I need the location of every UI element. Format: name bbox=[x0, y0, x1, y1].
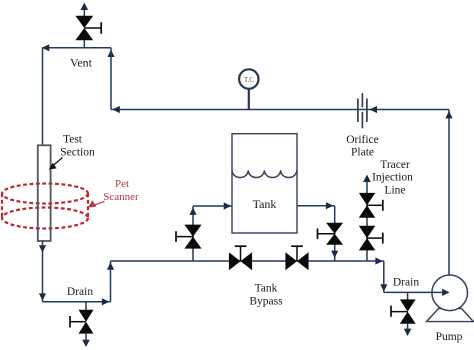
arrow right into tank bbox=[224, 202, 232, 209]
wire: tank inlet horizontal bbox=[193, 205, 232, 207]
wire: vent header bbox=[43, 47, 112, 49]
wire: main top line bbox=[111, 109, 449, 111]
pet scanner cylinder (red dashed) bbox=[2, 184, 88, 229]
svg-text:T.C: T.C bbox=[244, 77, 254, 84]
arrow down drain-left outlet bbox=[82, 340, 90, 347]
svg-text:Vent: Vent bbox=[70, 56, 93, 70]
valve V2 drain-left stem bbox=[85, 302, 87, 310]
arrow down drain-right outlet bbox=[404, 329, 412, 336]
svg-text:Tracer: Tracer bbox=[380, 159, 410, 171]
valve V3a bypass 1 (bowtie horizontal) bbox=[229, 246, 252, 270]
wire: test section to drain corner bbox=[42, 241, 44, 302]
arrow up on riser below bypass line bbox=[107, 262, 114, 269]
arrow down above drain corner bbox=[39, 293, 46, 300]
wire: left downcomer from vent header to test section bbox=[42, 48, 44, 146]
instrument T-C circle bbox=[239, 69, 258, 88]
wire: drain-left valve outlet bbox=[85, 334, 87, 341]
orifice plate bbox=[358, 93, 367, 128]
wire: vent valve outlet stub bbox=[83, 9, 85, 16]
svg-text:Drain: Drain bbox=[67, 286, 93, 298]
arrow up tracer line bbox=[363, 175, 371, 183]
svg-text:Line: Line bbox=[384, 185, 405, 197]
svg-text:Tank: Tank bbox=[255, 283, 278, 295]
wire: bypass line bbox=[111, 260, 384, 262]
valve V6 drain-right (bowtie) bbox=[391, 299, 416, 323]
tank rectangle bbox=[232, 134, 297, 233]
valve V6 drain-right stem bbox=[407, 292, 409, 299]
black annotation arrow to test section bbox=[49, 158, 63, 170]
wire: riser from main line to vent header bbox=[110, 48, 112, 110]
arrow down below test section bbox=[39, 245, 46, 252]
wire: vent valve inlet stub bbox=[83, 40, 85, 48]
svg-text:Tank: Tank bbox=[253, 197, 277, 211]
wire: riser drain-left to bypass line bbox=[110, 261, 112, 302]
arrow up on tank inlet riser bbox=[189, 208, 196, 215]
wire: tank inlet riser bbox=[192, 206, 194, 261]
valve V2 drain-left (bowtie) bbox=[70, 310, 94, 334]
arrow left on main line near left corner bbox=[112, 106, 120, 113]
wire: drain-right valve outlet bbox=[407, 324, 409, 330]
wire: right riser from pump to main line bbox=[448, 110, 450, 276]
test section rectangle bbox=[38, 145, 51, 241]
valve V4 tank inlet (bowtie) bbox=[176, 225, 202, 249]
valve V7 tracer upper (bowtie) bbox=[359, 193, 383, 218]
arrow down on outlet riser above bypass bbox=[331, 251, 338, 258]
arrow right at bypass line east end bbox=[375, 257, 383, 264]
pump circle bbox=[432, 275, 468, 311]
svg-text:Pump: Pump bbox=[436, 331, 463, 343]
red annotation arrow to scanner bbox=[88, 200, 105, 207]
svg-text:Pet: Pet bbox=[115, 178, 129, 190]
wire: drain line inside pump + arrow at pump center bbox=[432, 291, 442, 293]
arrow right at tank outlet corner bbox=[326, 202, 334, 209]
valve V3b bypass 2 (bowtie horizontal) bbox=[285, 246, 308, 270]
svg-text:Injection: Injection bbox=[372, 172, 413, 184]
tank water line (scallops) bbox=[232, 170, 297, 177]
svg-text:Test: Test bbox=[63, 134, 83, 146]
wire: bypass east corner down to drain line bbox=[383, 261, 385, 292]
pump stand bbox=[427, 309, 474, 322]
wire: tank outlet riser down bbox=[334, 206, 336, 261]
svg-text:Drain: Drain bbox=[393, 277, 419, 289]
svg-text:Bypass: Bypass bbox=[249, 296, 283, 308]
wire: T-C stem bbox=[248, 89, 250, 110]
arrow left on main line after orifice plate bbox=[370, 106, 378, 113]
wire: tank outlet horizontal bbox=[297, 205, 335, 207]
svg-text:Scanner: Scanner bbox=[103, 191, 139, 203]
svg-text:Orifice: Orifice bbox=[346, 134, 379, 146]
arrow down above drain-right line bbox=[380, 284, 387, 291]
valve V5 tank outlet (bowtie) bbox=[318, 223, 344, 245]
svg-text:Plate: Plate bbox=[351, 147, 374, 159]
arrow up into vent header at right riser bbox=[107, 50, 114, 57]
arrow right at drain-left end bbox=[102, 298, 110, 305]
wire: drain-left horizontal bbox=[43, 301, 111, 303]
arrow up above vent valve bbox=[81, 3, 89, 11]
wire: tracer injection riser bbox=[366, 181, 368, 261]
wire: drain-right horizontal into pump bbox=[384, 291, 442, 293]
arrow up at top of right riser bbox=[445, 111, 452, 118]
valve V1 vent (bowtie) bbox=[75, 16, 101, 40]
svg-text:Section: Section bbox=[60, 147, 95, 159]
arrow left at vent header left end bbox=[42, 44, 50, 51]
valve V8 tracer lower (bowtie) bbox=[359, 226, 383, 251]
